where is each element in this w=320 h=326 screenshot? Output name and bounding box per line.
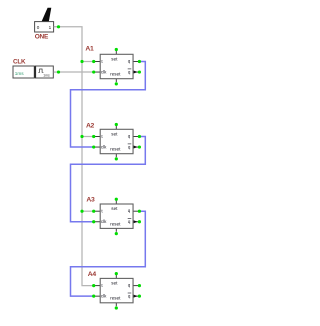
- svg-text:ONE: ONE: [35, 33, 49, 40]
- svg-text:A3: A3: [86, 196, 95, 203]
- svg-text:A1: A1: [85, 45, 94, 52]
- svg-text:A4: A4: [88, 271, 97, 278]
- svg-text:A2: A2: [86, 122, 95, 129]
- svg-text:1: 1: [49, 25, 52, 30]
- svg-text:reset: reset: [110, 72, 121, 77]
- svg-text:1ms: 1ms: [15, 71, 25, 76]
- svg-text:CLK: CLK: [13, 59, 26, 66]
- svg-text:1ms: 1ms: [43, 73, 50, 77]
- svg-text:0: 0: [37, 25, 40, 30]
- svg-text:clk: clk: [101, 69, 107, 74]
- svg-text:set: set: [111, 56, 118, 61]
